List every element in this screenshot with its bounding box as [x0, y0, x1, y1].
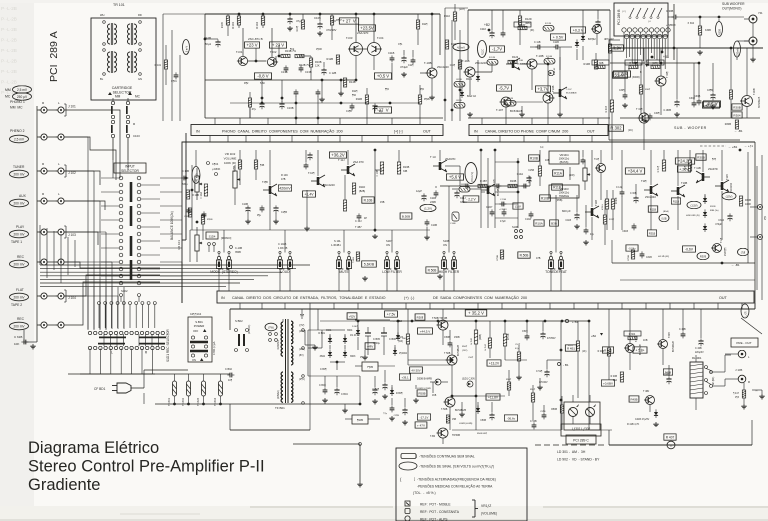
TR B01 primary lower [277, 372, 283, 402]
bridge diode D B03 [320, 349, 332, 358]
svg-text:47µ: 47µ [252, 107, 257, 111]
svg-text:2,5 mV: 2,5 mV [17, 88, 28, 92]
zener R111 [466, 60, 480, 82]
svg-text:Diagrama Elétrico: Diagrama Elétrico [28, 439, 159, 457]
svg-text:C31B: C31B [646, 257, 652, 259]
svg-text:+3,7V: +3,7V [537, 87, 548, 92]
svg-text:3602: 3602 [320, 355, 326, 358]
svg-text:(7W): (7W) [268, 325, 274, 329]
svg-text:47B: 47B [536, 257, 541, 260]
svg-text:P··L·2B: P··L·2B [1, 59, 17, 64]
svg-text:C103: C103 [133, 134, 140, 138]
svg-text:T-10B: T-10B [536, 54, 544, 58]
svg-text:T-I02: T-I02 [270, 50, 277, 54]
balance pot lower [195, 227, 202, 262]
svg-text:RL 4D1: RL 4D1 [692, 356, 702, 360]
svg-text:10K: 10K [14, 342, 19, 346]
svg-text:-0,04+: -0,04+ [628, 247, 636, 251]
oval 40mV [192, 150, 200, 184]
svg-text:R30B: R30B [719, 29, 722, 35]
svg-text:-36,6v: -36,6v [507, 417, 516, 421]
svg-text:TAPE 2: TAPE 2 [11, 303, 22, 307]
resistor R50B 1KB [417, 390, 437, 397]
svg-text:4¶0: 4¶0 [420, 88, 425, 91]
svg-text:REC: REC [17, 255, 25, 259]
capacitor C1025 [278, 242, 288, 250]
resistor R31B rm [647, 230, 656, 236]
capacitor C10B t3 [307, 152, 312, 160]
svg-text:R10B: R10B [530, 157, 538, 161]
svg-text:C50B (103B): C50B (103B) [459, 423, 473, 425]
resistor R12B b [327, 55, 340, 64]
right mid rails [612, 150, 762, 300]
svg-text:R.50B: R.50B [520, 254, 529, 258]
relay RL401 [690, 362, 703, 398]
svg-text:(WR): (WR) [652, 62, 658, 65]
resistor R11B rm [648, 206, 669, 213]
svg-text:(VOLUME): (VOLUME) [481, 512, 497, 516]
svg-text:R10¶: R10¶ [296, 25, 299, 31]
right frame bc [590, 355, 731, 430]
banner1 box [191, 125, 443, 136]
resistor R sub [729, 48, 732, 118]
svg-text:K30B: K30B [705, 29, 711, 32]
subwoofer extra parts [619, 47, 732, 117]
svg-text:(24VDC): (24VDC) [248, 324, 251, 334]
resistor R30B rt2 [732, 104, 742, 110]
svg-text:(BASS): (BASS) [560, 160, 569, 164]
svg-text:R:101: R:101 [155, 64, 162, 67]
svg-text:+23 V: +23 V [246, 43, 257, 48]
fuse TF B03 [197, 374, 206, 406]
relay RL401 label [692, 356, 702, 360]
svg-text:C B0¶: C B0¶ [320, 368, 327, 371]
resistor R30B R31B [657, 150, 692, 172]
svg-text:+0,5 V: +0,5 V [377, 74, 389, 79]
svg-text:2SC2240: 2SC2240 [475, 61, 487, 65]
svg-text:15B: 15B [380, 201, 385, 204]
svg-text:4V 50V: 4V 50V [411, 369, 420, 373]
svg-text:R304: R304 [733, 114, 741, 118]
svg-text:→ +ƒ1: → +ƒ1 [744, 144, 753, 148]
svg-text:R10B: R10B [403, 166, 410, 169]
subwoofer box frame [609, 40, 740, 140]
svg-text:R 407: R 407 [666, 436, 675, 440]
capacitor C474 [400, 55, 408, 77]
tone mid trans [262, 150, 277, 230]
minus B1 node [558, 363, 569, 368]
svg-text:AUX: AUX [19, 194, 27, 198]
resistor R12D [518, 10, 531, 45]
svg-text:(B2B): (B2B) [359, 190, 365, 193]
switch MUTE [336, 251, 351, 274]
fuse TF B04 [214, 374, 223, 406]
svg-text:3604: 3604 [347, 329, 353, 332]
svg-text:T-I04: T-I04 [377, 36, 384, 40]
subwoofer rail2 [610, 63, 760, 123]
svg-text:200 mV: 200 mV [14, 324, 26, 328]
subwoofer out label [722, 2, 745, 11]
svg-text:VR1D4: VR1D4 [559, 153, 568, 157]
svg-text:1KB: 1KB [643, 339, 648, 342]
svg-text:15B: 15B [452, 419, 457, 421]
svg-text:R 10B: R 10B [192, 194, 199, 197]
connector col res [444, 40, 462, 111]
svg-text:BC54BA/B: BC54BA/B [566, 92, 577, 95]
svg-text:J 101: J 101 [68, 105, 76, 109]
svg-text:+B2: +B2 [591, 334, 596, 338]
svg-text:C 40B: C 40B [695, 347, 702, 350]
svg-text:ON: ON [192, 358, 196, 362]
svg-text:R122: R122 [512, 55, 519, 59]
resistor R10A row [534, 220, 558, 226]
svg-text:(3)D1 CJ0N: (3)D1 CJ0N [462, 378, 475, 381]
svg-text:R11C: R11C [482, 49, 485, 55]
PRE-OUT jack R [725, 375, 750, 386]
svg-text:100K(2x): 100K(2x) [559, 157, 570, 161]
svg-text:R.10B: R.10B [364, 199, 373, 203]
svg-text:2SA97D: 2SA97D [445, 157, 455, 161]
svg-text:+4¶V: +4¶V [367, 345, 374, 349]
svg-text:200 mV: 200 mV [14, 172, 26, 176]
bc wires [408, 309, 561, 430]
svg-text:T-B0: T-B0 [430, 435, 436, 438]
resistor R604 [624, 331, 648, 342]
switch HIGH FILTER [439, 251, 460, 274]
svg-text:T 50B: T 50B [444, 352, 451, 355]
svg-text:T 30¶: T 30¶ [665, 71, 669, 78]
mid tone wires [375, 150, 592, 228]
svg-text:150B: 150B [454, 336, 460, 339]
transistor T11B bt [481, 158, 599, 240]
svg-text:200 mV: 200 mV [14, 295, 26, 299]
subwoofer jack 1 [744, 11, 763, 23]
label C50B q [530, 420, 537, 429]
svg-text:TONEDEFEAT: TONEDEFEAT [545, 270, 567, 274]
svg-text:VR 101: VR 101 [177, 240, 181, 250]
svg-text:C304: C304 [718, 219, 724, 222]
voltage +6.2V [609, 45, 624, 51]
svg-text:C B06: C B06 [389, 338, 397, 341]
svg-text:420mV: 420mV [279, 187, 291, 191]
SB01 power box [188, 313, 212, 362]
input ground cap [14, 330, 36, 349]
tone rail top [182, 149, 755, 151]
svg-text:+ B1: + B1 [572, 320, 579, 324]
svg-text:OUT(MONO): OUT(MONO) [722, 7, 741, 11]
svg-text:L 0¶: L 0¶ [745, 311, 748, 316]
tone series chain [440, 180, 530, 188]
svg-text:1 DK 05: 1 DK 05 [278, 246, 288, 250]
svg-text:PCI 289 B: PCI 289 B [617, 9, 621, 25]
regulator box [355, 362, 395, 371]
title line 2 [28, 458, 265, 476]
fuse TF B02 [182, 374, 191, 406]
tone switch bottom wires [219, 250, 635, 288]
stadium R11B d [454, 79, 465, 87]
capacitor C303 [663, 48, 679, 112]
resistor R401 pair [602, 190, 618, 230]
svg-text:¶50: ¶50 [352, 94, 357, 97]
svg-text:-1,3 K: -1,3 K [616, 72, 627, 77]
resistor R40B 50A [611, 372, 624, 382]
svg-text:¶ 417: ¶ 417 [733, 392, 740, 395]
input PHENO2 [10, 129, 65, 143]
svg-text:1¶3: 1¶3 [735, 396, 740, 399]
svg-text:SELECTOR: SELECTOR [121, 169, 139, 173]
transistor T107 bar b [553, 47, 577, 117]
svg-text:REF: POT - ALPS: REF: POT - ALPS [420, 518, 448, 521]
svg-text:T 4BJ: T 4BJ [643, 390, 650, 393]
svg-text:ON: ON [443, 243, 447, 247]
PCI 289 B tails [624, 32, 668, 74]
svg-text:R 604: R 604 [629, 333, 636, 336]
svg-text:X 304: X 304 [687, 22, 694, 25]
voltage -36.6V [504, 415, 517, 421]
capacitor C13B a [281, 65, 288, 74]
voltage +39.1 [399, 374, 410, 380]
resistor R10B bt [529, 155, 550, 162]
title line 1 [28, 439, 159, 457]
transistor T10B v [543, 85, 555, 118]
label C50B 4750B [417, 388, 431, 390]
svg-text:C41B 47µ/6V: C41B 47µ/6V [635, 418, 650, 421]
svg-text:AP (NF): AP (NF) [712, 376, 715, 385]
resistor R50B td [518, 252, 541, 260]
voltage +7.5v bc [385, 311, 398, 317]
legend wire top [230, 430, 363, 487]
transistor T10B tone [308, 150, 335, 187]
resistor R50B bc [415, 314, 425, 320]
wire play [64, 232, 98, 245]
svg-text:Gradiente: Gradiente [28, 476, 100, 494]
resistor R31B rt [605, 48, 614, 150]
svg-text:0,0B: 0,0B [662, 217, 667, 220]
voltage +0.6BV [601, 380, 614, 386]
svg-text:R3 4B (3x): R3 4B (3x) [658, 256, 669, 258]
svg-text:R11B: R11B [356, 97, 363, 101]
bridge wires [308, 330, 345, 370]
ground tone c [424, 227, 429, 240]
TR101 transformer lower [100, 49, 142, 81]
svg-text:DE SAIDA COMPONENTES COM N: DE SAIDA COMPONENTES COM NUMERAÇÃO 200 [433, 295, 527, 300]
balance pot upper [195, 168, 202, 200]
svg-text:R11D: R11D [359, 186, 365, 189]
svg-text:(2DB): (2DB) [480, 334, 482, 340]
svg-text:S 10L: S 10L [334, 239, 341, 243]
svg-text:+7(/BOX: +7(/BOX [666, 24, 676, 27]
voltage -1.7V [490, 46, 505, 52]
svg-text:T-107: T-107 [496, 108, 504, 112]
capacitor C-10B 350B [230, 246, 243, 254]
voltage -5.7V [497, 85, 512, 91]
svg-text:C30B: C30B [694, 95, 701, 98]
jack stubs [37, 110, 58, 325]
svg-text:-0,8 V: -0,8 V [257, 74, 268, 79]
svg-text:Stereo Control Pre-Amplifier P: Stereo Control Pre-Amplifier P-II [28, 458, 265, 476]
svg-text:2SA¶¶¶: 2SA¶¶¶ [724, 247, 727, 256]
svg-text:C B02: C B02 [225, 368, 233, 371]
svg-text:C 11B: C 11B [534, 41, 541, 44]
svg-text:J 103: J 103 [68, 233, 76, 237]
4B01 label [213, 341, 216, 355]
svg-text:T 31¶: T 31¶ [636, 107, 643, 111]
tone rail x375 [374, 149, 377, 232]
relay 7W [265, 323, 277, 341]
jack chain wire [24, 106, 37, 342]
voltage +13.2V [487, 360, 501, 366]
transistor T11B 2SC2240 [715, 150, 733, 240]
svg-text:S10B: S10B [512, 226, 518, 229]
bottom section frame [230, 303, 755, 330]
capacitor C10B mid [181, 170, 189, 186]
capacitor C10J [355, 213, 367, 223]
bridge diode D B04 [343, 349, 356, 358]
TR101 box [91, 18, 156, 100]
svg-text:R 3DB: R 3DB [629, 62, 637, 65]
svg-text:BA¶42: BA¶42 [588, 37, 596, 41]
PRE-OUT jack L [725, 350, 750, 359]
transistor T50B low [441, 397, 466, 430]
capacitor C51B 470 [540, 321, 556, 340]
label C41B [635, 418, 650, 421]
svg-text:200 mV: 200 mV [14, 201, 26, 205]
capacitor C11B t [430, 190, 438, 204]
svg-text:R¶0B: R¶0B [497, 254, 499, 260]
cartridge selector text [112, 86, 133, 95]
svg-text:R15B: R15B [461, 184, 467, 186]
ground bc mid [537, 378, 542, 390]
resistor R30B rt3 [696, 154, 717, 161]
svg-text:[MONO]: [MONO] [221, 236, 231, 240]
resistor R106 extra [296, 14, 305, 32]
svg-text:CANAL DIREITO DO PHONE COMP C: CANAL DIREITO DO PHONE COMP C/NUM 200 [485, 129, 568, 133]
svg-text:4P: 4P [364, 217, 367, 220]
phono lower caps [346, 85, 430, 118]
VR104 bass label [549, 151, 579, 164]
svg-text:T11B: T11B [726, 174, 729, 180]
svg-text:7¶05: 7¶05 [367, 365, 374, 369]
REC selector bars [98, 337, 166, 344]
subwoofer label [674, 126, 707, 130]
svg-text:BC546A/B: BC546A/B [758, 96, 761, 108]
label +B2 bc [591, 333, 603, 338]
svg-text:C 15B: C 15B [500, 199, 507, 201]
resistor B40B r [663, 369, 672, 375]
resistor R110 t [352, 183, 365, 194]
capacitor C50B low [480, 402, 494, 422]
resistor R4B2 bc [602, 347, 613, 353]
resistor R304 rt [732, 112, 742, 118]
svg-text:→ -B1: → -B1 [734, 129, 743, 133]
ground phono b [338, 87, 343, 96]
wire flat [64, 275, 160, 296]
svg-text:+ 27 V: + 27 V [342, 19, 356, 24]
middle section frame [182, 142, 755, 303]
resistor R11B [356, 95, 369, 104]
svg-text:L: L [111, 351, 113, 355]
svg-text:T-10B: T-10B [424, 61, 432, 65]
svg-text:R¶0B: R¶0B [207, 219, 213, 221]
phono2 mid wires [475, 46, 583, 102]
svg-text:T-I03: T-I03 [346, 36, 353, 40]
svg-text:OUT: OUT [423, 129, 432, 133]
relay wires [696, 355, 725, 410]
svg-text:100K(2x): 100K(2x) [559, 191, 570, 195]
svg-text:C5¶B: C5¶B [540, 411, 546, 413]
svg-text:(300R): (300R) [632, 76, 640, 79]
wire tuner [64, 171, 100, 185]
svg-text:OUT: OUT [587, 129, 596, 133]
svg-text:R¶07: R¶07 [336, 19, 342, 22]
transistor T110 tone [338, 150, 364, 176]
bridge labels [326, 329, 353, 332]
capacitor C31B rm2 [640, 251, 653, 259]
svg-text:R 30B: R 30B [597, 62, 604, 65]
svg-text:T 11B: T 11B [694, 166, 701, 170]
svg-text:47B: 47B [281, 178, 286, 181]
svg-text:IN: IN [196, 129, 200, 133]
diode r [654, 409, 658, 418]
voltage +26V [677, 166, 690, 172]
tone rail y230 [190, 229, 430, 262]
resistor R51B 47DB [485, 321, 492, 358]
svg-text:(TOL. - ±5 %.): (TOL. - ±5 %.) [413, 491, 436, 495]
svg-text:820 pF: 820 pF [562, 209, 571, 213]
svg-text:220mV: 220mV [737, 48, 740, 56]
voltage -0.6V rt [683, 246, 696, 252]
switch LOUD [277, 251, 292, 274]
legend ref2 [405, 509, 460, 515]
ps extra diode row [320, 320, 408, 350]
resistor R16B [248, 92, 251, 118]
svg-text:C11¶: C11¶ [450, 65, 456, 67]
VR102 volume pot [233, 165, 240, 205]
oval 00B rm [659, 214, 669, 222]
resistor R507 v [397, 321, 410, 365]
svg-text:TF.B04: TF.B04 [214, 397, 217, 406]
svg-text:FLAT: FLAT [16, 288, 24, 292]
svg-text:+23,5V: +23,5V [360, 26, 374, 31]
selector to banner wires [113, 160, 139, 302]
fuse rail [68, 374, 290, 405]
phono1 label [10, 100, 25, 110]
voltage +44.5V [418, 328, 433, 334]
svg-text:C31B: C31B [622, 231, 628, 233]
selector left wires [101, 178, 119, 276]
svg-text:B3B (3x): B3B (3x) [710, 210, 719, 212]
svg-text:C3¶B: C3¶B [707, 90, 713, 92]
input MC oval [5, 93, 32, 101]
svg-text:C 10J: C 10J [355, 220, 362, 223]
voltage +34.4V [625, 168, 644, 174]
stadium R12B c [505, 98, 516, 106]
bc extra labels [468, 357, 546, 435]
tone verticals drop [224, 186, 556, 253]
svg-text:+ 35,2 V: + 35,2 V [468, 311, 484, 316]
svg-text:230B: 230B [430, 201, 436, 204]
svg-text:C 61B: C 61B [14, 335, 22, 339]
svg-text:TR 101: TR 101 [113, 3, 125, 7]
svg-text:3601: 3601 [326, 329, 332, 332]
input selector contacts [119, 176, 141, 285]
svg-text:-PENSÕES MEDIDAS COM RELAÇÃO A: -PENSÕES MEDIDAS COM RELAÇÃO A0 TERRA [417, 484, 493, 489]
svg-text:(1,2V): (1,2V) [424, 206, 432, 210]
svg-text:R31B: R31B [710, 206, 716, 208]
banner3 text [221, 295, 728, 300]
svg-text:PHONO 1: PHONO 1 [10, 100, 25, 104]
svg-text:R105: R105 [220, 21, 224, 28]
